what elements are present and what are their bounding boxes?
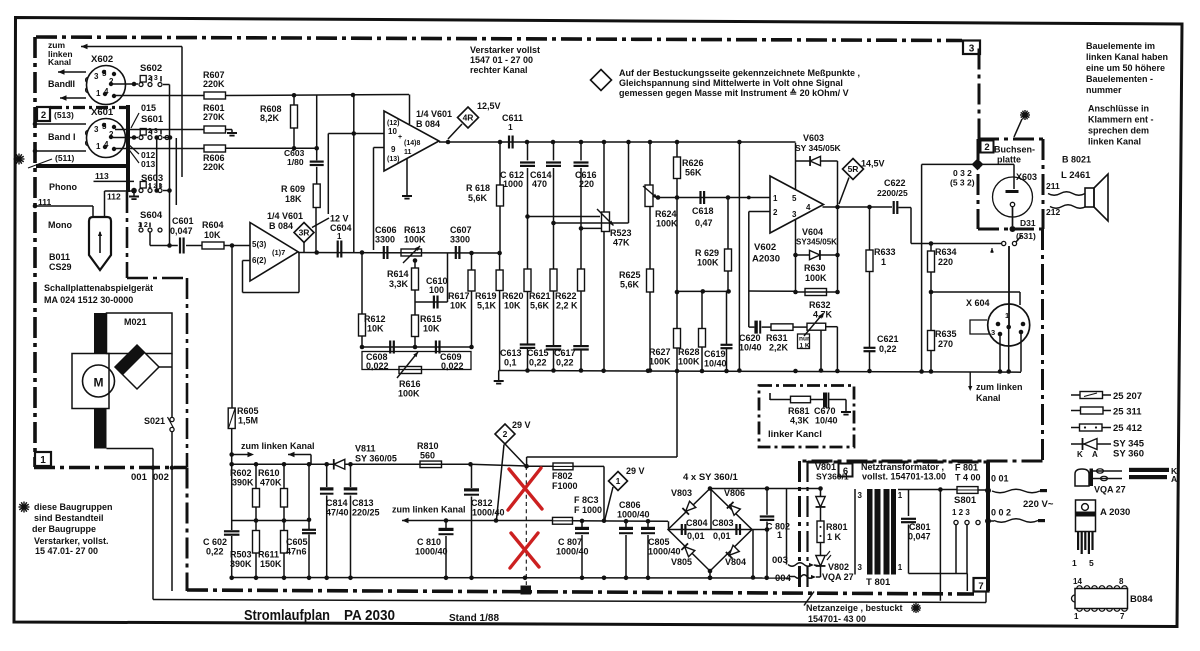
- svg-text:8: 8: [1119, 577, 1124, 586]
- svg-text:5(3): 5(3): [252, 240, 267, 249]
- svg-text:10: 10: [388, 127, 397, 136]
- svg-text:29 V: 29 V: [512, 420, 531, 430]
- svg-text:S601: S601: [141, 114, 164, 125]
- svg-text:0,01: 0,01: [713, 531, 731, 541]
- svg-text:C 810: C 810: [417, 537, 441, 547]
- svg-text:0,047: 0,047: [908, 532, 931, 542]
- svg-text:R627: R627: [649, 347, 671, 357]
- svg-text:6(2): 6(2): [252, 256, 267, 265]
- svg-text:220K: 220K: [203, 79, 225, 89]
- svg-text:1: 1: [508, 122, 513, 132]
- svg-text:R628: R628: [678, 347, 700, 357]
- svg-text:C801: C801: [909, 522, 931, 532]
- svg-text:004: 004: [775, 573, 792, 584]
- svg-text:R523: R523: [610, 228, 632, 238]
- svg-text:5,6K: 5,6K: [620, 280, 640, 290]
- svg-text:4: 4: [104, 140, 109, 149]
- svg-text:R621: R621: [529, 291, 551, 301]
- svg-text:154701- 43 00: 154701- 43 00: [808, 614, 866, 624]
- svg-text:1/4 V601: 1/4 V601: [416, 109, 452, 119]
- svg-text:220: 220: [938, 257, 953, 267]
- svg-text:C 602: C 602: [203, 537, 227, 547]
- svg-text:0,022: 0,022: [366, 361, 389, 371]
- svg-text:Band: Band: [48, 79, 71, 89]
- svg-text:X603: X603: [1016, 172, 1037, 182]
- svg-text:V811: V811: [355, 444, 376, 454]
- svg-text:2200/25: 2200/25: [877, 188, 908, 198]
- svg-text:3300: 3300: [450, 235, 470, 245]
- svg-text:8,2K: 8,2K: [260, 113, 280, 123]
- svg-text:T 801: T 801: [866, 577, 891, 588]
- svg-text:Netztransformator ,: Netztransformator ,: [861, 462, 944, 472]
- svg-text:3: 3: [858, 563, 863, 572]
- svg-text:Stromlaufplan: Stromlaufplan: [244, 607, 330, 624]
- svg-text:C619: C619: [704, 349, 726, 359]
- svg-text:nur: nur: [799, 336, 810, 343]
- svg-text:470K: 470K: [260, 478, 282, 488]
- svg-text:47K: 47K: [613, 238, 630, 248]
- svg-text:R604: R604: [202, 220, 224, 230]
- svg-text:R503: R503: [230, 550, 252, 560]
- svg-text:R613: R613: [404, 225, 426, 235]
- svg-text:10K: 10K: [504, 301, 521, 311]
- svg-text:R626: R626: [682, 158, 704, 168]
- svg-text:56K: 56K: [685, 168, 702, 178]
- svg-text:eine um 50 höhere: eine um 50 höhere: [1086, 63, 1165, 73]
- svg-text:5,6K: 5,6K: [468, 193, 488, 203]
- svg-text:C617: C617: [554, 348, 576, 358]
- svg-text:0,01: 0,01: [687, 531, 705, 541]
- svg-text:R602: R602: [230, 468, 252, 478]
- svg-text:(5 3 2): (5 3 2): [950, 178, 975, 188]
- svg-text:gemessen gegen Masse mit In: gemessen gegen Masse mit Instrument ≙ 20…: [619, 88, 849, 98]
- svg-text:S021: S021: [144, 416, 165, 426]
- svg-text:R633: R633: [874, 247, 896, 257]
- svg-text:390K: 390K: [232, 478, 254, 488]
- svg-text:47/40: 47/40: [326, 508, 349, 518]
- svg-text:SY 360/05: SY 360/05: [355, 454, 397, 464]
- svg-text:100K: 100K: [805, 273, 827, 283]
- svg-text:1: 1: [898, 491, 903, 500]
- svg-text:5R: 5R: [848, 164, 859, 174]
- svg-text:0 0 2: 0 0 2: [991, 508, 1011, 518]
- svg-text:1 2 3: 1 2 3: [952, 508, 970, 517]
- svg-text:R619: R619: [475, 291, 497, 301]
- svg-text:5: 5: [102, 69, 107, 78]
- svg-text:R630: R630: [804, 263, 826, 273]
- svg-text:003: 003: [772, 555, 788, 566]
- svg-text:100: 100: [429, 285, 444, 295]
- svg-text:47n6: 47n6: [286, 547, 307, 557]
- svg-text:SY360/1: SY360/1: [816, 472, 849, 482]
- svg-text:14: 14: [1073, 577, 1082, 586]
- svg-text:5,1K: 5,1K: [477, 301, 497, 311]
- svg-text:1000/40: 1000/40: [648, 547, 681, 557]
- svg-text:C622: C622: [884, 178, 906, 188]
- svg-text:0,22: 0,22: [206, 547, 224, 557]
- svg-text:+: +: [398, 134, 402, 141]
- svg-text:3: 3: [858, 491, 863, 500]
- svg-text:B 8021: B 8021: [1062, 155, 1091, 165]
- svg-text:zum linken Kanal: zum linken Kanal: [392, 505, 466, 515]
- svg-text:Bauelementen -: Bauelementen -: [1086, 74, 1153, 84]
- svg-text:B011: B011: [49, 252, 70, 262]
- svg-text:4 x SY 360/1: 4 x SY 360/1: [683, 472, 738, 483]
- svg-text:D31: D31: [1020, 218, 1036, 228]
- svg-text:001: 001: [131, 472, 148, 483]
- svg-text:zum linken: zum linken: [976, 382, 1023, 392]
- svg-text:100K: 100K: [656, 219, 678, 229]
- svg-text:3: 3: [792, 210, 797, 219]
- svg-text:M021: M021: [124, 317, 147, 327]
- svg-text:Verstarker, vollst.: Verstarker, vollst.: [34, 536, 109, 546]
- svg-text:Gleichspannung sind Mittelwe: Gleichspannung sind Mittelwerte in Volt …: [619, 78, 843, 88]
- svg-text:Band I: Band I: [48, 132, 76, 142]
- svg-text:C803: C803: [712, 518, 734, 528]
- svg-text:470: 470: [532, 179, 547, 189]
- svg-text:150K: 150K: [260, 559, 282, 569]
- svg-text:1547 01 - 27 00: 1547 01 - 27 00: [470, 55, 533, 65]
- svg-text:A 2030: A 2030: [1100, 507, 1130, 518]
- svg-text:sprechen dem: sprechen dem: [1088, 126, 1149, 136]
- svg-text:2: 2: [984, 142, 989, 153]
- svg-text:0,047: 0,047: [170, 226, 193, 236]
- svg-text:2,2 K: 2,2 K: [556, 301, 578, 311]
- svg-text:linken Kanal haben: linken Kanal haben: [1086, 52, 1168, 62]
- svg-text:C812: C812: [471, 498, 493, 508]
- svg-text:R681: R681: [788, 406, 810, 416]
- svg-text:(14)8: (14)8: [404, 140, 420, 147]
- svg-text:3300: 3300: [375, 235, 395, 245]
- svg-text:C620: C620: [739, 333, 761, 343]
- svg-text:3: 3: [991, 328, 995, 337]
- svg-text:V602: V602: [754, 242, 776, 253]
- svg-text:100K: 100K: [649, 357, 671, 367]
- svg-text:Klammern ent -: Klammern ent -: [1088, 115, 1154, 125]
- svg-text:platte: platte: [997, 155, 1021, 165]
- svg-text:A2030: A2030: [752, 254, 780, 265]
- svg-text:B 084: B 084: [269, 221, 293, 231]
- svg-text:3R: 3R: [299, 228, 310, 238]
- svg-text:R610: R610: [258, 468, 280, 478]
- svg-text:Phono: Phono: [49, 182, 77, 192]
- svg-text:Kanal: Kanal: [48, 57, 71, 67]
- svg-text:220K: 220K: [203, 162, 225, 172]
- svg-text:4: 4: [104, 87, 109, 96]
- svg-text:0,22: 0,22: [556, 358, 574, 368]
- svg-text:C 807: C 807: [558, 537, 582, 547]
- svg-text:V802: V802: [828, 562, 849, 572]
- svg-text:100K: 100K: [398, 389, 420, 399]
- svg-text:V804: V804: [725, 557, 746, 567]
- svg-text:11: 11: [404, 149, 412, 156]
- svg-text:1: 1: [773, 194, 778, 203]
- svg-text:113: 113: [95, 171, 109, 181]
- svg-text:linker Kancl: linker Kancl: [768, 429, 822, 440]
- svg-text:211: 211: [1046, 181, 1060, 191]
- svg-text:(13): (13): [387, 156, 399, 163]
- svg-text:1: 1: [1072, 558, 1077, 568]
- svg-text:Anschlüsse in: Anschlüsse in: [1088, 104, 1149, 114]
- svg-text:1: 1: [40, 455, 46, 466]
- svg-text:F 1000: F 1000: [574, 505, 602, 515]
- svg-text:1000/40: 1000/40: [415, 547, 448, 557]
- svg-text:Netzanzeige , bestuckt: Netzanzeige , bestuckt: [806, 603, 903, 613]
- svg-text:F 8C3: F 8C3: [574, 495, 599, 505]
- svg-text:S801: S801: [954, 495, 977, 506]
- svg-text:C607: C607: [450, 225, 472, 235]
- svg-text:0,1: 0,1: [504, 358, 517, 368]
- svg-text:10K: 10K: [204, 230, 221, 240]
- svg-text:112: 112: [107, 192, 121, 202]
- svg-text:1000: 1000: [503, 179, 523, 189]
- svg-text:1: 1: [616, 476, 621, 486]
- svg-text:2: 2: [503, 429, 508, 439]
- svg-text:3: 3: [94, 72, 99, 81]
- svg-text:A: A: [1092, 450, 1098, 459]
- svg-text:Kanal: Kanal: [976, 393, 1001, 403]
- svg-text:F802: F802: [552, 471, 573, 481]
- svg-text:270: 270: [938, 339, 953, 349]
- svg-text:R622: R622: [555, 291, 577, 301]
- svg-text:12,5V: 12,5V: [477, 101, 501, 111]
- svg-text:V806: V806: [724, 488, 745, 498]
- svg-text:3: 3: [94, 125, 99, 134]
- svg-text:der Baugruppe: der Baugruppe: [32, 524, 96, 534]
- svg-text:L 2461: L 2461: [1061, 170, 1091, 181]
- svg-text:(511): (511): [55, 153, 75, 163]
- svg-text:rechter Kanal: rechter Kanal: [470, 65, 528, 75]
- svg-text:7: 7: [1120, 612, 1125, 621]
- svg-text:zum linken Kanal: zum linken Kanal: [241, 441, 315, 451]
- svg-text:5: 5: [792, 194, 797, 203]
- svg-text:1000/40: 1000/40: [472, 508, 505, 518]
- svg-text:2 3: 2 3: [148, 75, 158, 82]
- svg-text:Buchsen-: Buchsen-: [994, 145, 1035, 155]
- svg-text:R615: R615: [420, 314, 442, 324]
- svg-text:10K: 10K: [450, 301, 467, 311]
- svg-text:II: II: [70, 79, 75, 89]
- svg-text:10/40: 10/40: [739, 343, 762, 353]
- svg-text:100K: 100K: [678, 357, 700, 367]
- svg-text:C618: C618: [692, 206, 714, 216]
- svg-text:R 618: R 618: [466, 183, 490, 193]
- svg-text:1 K: 1 K: [800, 343, 810, 350]
- svg-text:S604: S604: [140, 210, 163, 221]
- svg-text:560: 560: [420, 451, 435, 461]
- svg-text:0,022: 0,022: [441, 361, 464, 371]
- svg-text:C806: C806: [619, 500, 641, 510]
- svg-text:C621: C621: [877, 334, 899, 344]
- svg-text:A: A: [1171, 474, 1177, 484]
- svg-text:R631: R631: [766, 333, 788, 343]
- svg-text:5: 5: [102, 122, 107, 131]
- svg-text:C805: C805: [648, 537, 670, 547]
- svg-text:VQA 27: VQA 27: [1094, 485, 1126, 495]
- svg-text:Auf der Bestuckungsseite geke: Auf der Bestuckungsseite gekennzeichnete…: [619, 68, 860, 78]
- svg-text:0,47: 0,47: [695, 218, 713, 228]
- svg-text:R616: R616: [399, 379, 421, 389]
- svg-text:S602: S602: [140, 63, 162, 74]
- svg-text:220 V~: 220 V~: [1023, 499, 1054, 510]
- svg-text:1: 1: [337, 232, 342, 241]
- svg-text:vollst. 154701-13.00: vollst. 154701-13.00: [862, 472, 946, 482]
- svg-text:B 084: B 084: [416, 119, 440, 129]
- svg-text:R605: R605: [237, 406, 259, 416]
- svg-text:3: 3: [969, 44, 975, 55]
- svg-text:X602: X602: [91, 54, 113, 65]
- svg-text:10K: 10K: [367, 324, 384, 334]
- svg-text:0 3 2: 0 3 2: [953, 168, 972, 178]
- svg-text:1000/40: 1000/40: [556, 547, 589, 557]
- svg-text:sind Bestandteil: sind Bestandteil: [34, 513, 104, 523]
- svg-text:linken Kanal: linken Kanal: [1088, 137, 1141, 147]
- svg-text:220/25: 220/25: [352, 508, 380, 518]
- svg-text:PA 2030: PA 2030: [344, 607, 395, 624]
- svg-text:R 629: R 629: [695, 248, 719, 258]
- svg-text:4: 4: [806, 203, 811, 212]
- svg-text:diese Baugruppen: diese Baugruppen: [34, 502, 113, 512]
- svg-text:10K: 10K: [423, 324, 440, 334]
- svg-text:X601: X601: [91, 107, 114, 118]
- svg-text:C804: C804: [686, 518, 708, 528]
- svg-text:25 311: 25 311: [1113, 407, 1142, 418]
- svg-text:1: 1: [96, 142, 101, 151]
- svg-text:R 609: R 609: [281, 184, 305, 194]
- svg-text:4R: 4R: [463, 113, 474, 123]
- svg-text:5: 5: [1089, 558, 1094, 568]
- svg-text:2,2K: 2,2K: [769, 343, 789, 353]
- svg-text:Verstarker vollst: Verstarker vollst: [470, 45, 540, 55]
- svg-text:C605: C605: [286, 537, 308, 547]
- svg-text:1 K: 1 K: [827, 532, 842, 542]
- svg-text:C613: C613: [500, 348, 522, 358]
- svg-text:0 01: 0 01: [991, 474, 1009, 484]
- svg-text:18K: 18K: [285, 194, 302, 204]
- svg-text:1: 1: [898, 563, 903, 572]
- svg-text:R632: R632: [809, 300, 831, 310]
- svg-text:3,3K: 3,3K: [389, 279, 409, 289]
- svg-text:(1)7: (1)7: [272, 248, 285, 257]
- svg-text:25 207: 25 207: [1113, 391, 1142, 402]
- svg-text:29 V: 29 V: [626, 466, 645, 476]
- svg-text:R625: R625: [619, 270, 641, 280]
- svg-text:270K: 270K: [203, 112, 225, 122]
- svg-text:2: 2: [773, 208, 778, 217]
- svg-text:B084: B084: [1130, 594, 1153, 605]
- svg-text:R617: R617: [448, 291, 470, 301]
- svg-text:C615: C615: [527, 348, 549, 358]
- svg-text:V604: V604: [802, 227, 823, 237]
- svg-text:MA 024 1512 30-0000: MA 024 1512 30-0000: [44, 295, 133, 305]
- svg-text:1: 1: [881, 257, 886, 267]
- svg-text:R611: R611: [258, 550, 279, 560]
- svg-text:T 4 00: T 4 00: [955, 473, 981, 483]
- svg-text:X 604: X 604: [966, 298, 990, 308]
- svg-text:C606: C606: [375, 225, 397, 235]
- svg-text:SY 345/05K: SY 345/05K: [795, 143, 842, 153]
- svg-text:Schallplattenabspielgerät: Schallplattenabspielgerät: [44, 283, 153, 293]
- svg-text:nummer: nummer: [1086, 85, 1122, 95]
- svg-text:12 V: 12 V: [330, 214, 349, 224]
- svg-text:F 801: F 801: [955, 463, 978, 473]
- svg-text:R614: R614: [387, 269, 409, 279]
- svg-text:R801: R801: [826, 522, 848, 532]
- svg-text:1/80: 1/80: [287, 157, 304, 167]
- svg-text:0,22: 0,22: [879, 344, 897, 354]
- svg-text:R624: R624: [655, 209, 677, 219]
- svg-text:1000/40: 1000/40: [617, 510, 650, 520]
- svg-text:V801: V801: [815, 462, 836, 472]
- svg-text:SY345/05K: SY345/05K: [796, 238, 837, 247]
- svg-text:M: M: [94, 376, 104, 390]
- svg-text:7: 7: [978, 581, 983, 592]
- svg-text:(12): (12): [387, 120, 399, 127]
- svg-text:10/40: 10/40: [815, 416, 838, 426]
- svg-text:1: 1: [777, 530, 782, 540]
- svg-text:V603: V603: [803, 133, 824, 143]
- svg-text:002: 002: [153, 472, 169, 483]
- svg-text:013: 013: [141, 159, 155, 169]
- svg-text:10/40: 10/40: [704, 359, 727, 369]
- svg-text:14,5V: 14,5V: [861, 159, 885, 169]
- svg-text:5,6K: 5,6K: [530, 301, 550, 311]
- svg-text:Stand 1/88: Stand 1/88: [449, 613, 499, 624]
- svg-text:V803: V803: [671, 488, 692, 498]
- svg-text:100K: 100K: [697, 258, 719, 268]
- svg-text:1/4 V601: 1/4 V601: [267, 211, 303, 221]
- svg-text:R810: R810: [417, 441, 439, 451]
- svg-text:15 47.01- 27 00: 15 47.01- 27 00: [35, 546, 98, 556]
- svg-text:(513): (513): [54, 110, 74, 120]
- svg-text:390K: 390K: [230, 559, 252, 569]
- svg-text:R634: R634: [935, 247, 957, 257]
- svg-text:0,22: 0,22: [529, 358, 547, 368]
- svg-text:C670: C670: [814, 406, 836, 416]
- svg-text:1: 1: [96, 89, 101, 98]
- svg-text:C813: C813: [352, 498, 374, 508]
- svg-text:Mono: Mono: [48, 220, 72, 230]
- svg-text:C814: C814: [326, 498, 348, 508]
- svg-text:2: 2: [41, 110, 46, 121]
- svg-text:100K: 100K: [404, 235, 426, 245]
- svg-text:K: K: [1077, 450, 1083, 459]
- svg-text:R620: R620: [502, 291, 524, 301]
- svg-text:SY 360: SY 360: [1113, 449, 1144, 460]
- svg-text:25 412: 25 412: [1113, 423, 1142, 434]
- svg-text:1: 1: [1005, 311, 1009, 320]
- svg-text:015: 015: [141, 103, 156, 113]
- svg-text:1: 1: [1074, 612, 1079, 621]
- svg-text:Bauelemente im: Bauelemente im: [1086, 41, 1155, 51]
- svg-text:VQA 27: VQA 27: [822, 572, 854, 582]
- svg-text:9: 9: [391, 145, 396, 154]
- svg-text:4,3K: 4,3K: [790, 416, 810, 426]
- svg-text:CS29: CS29: [49, 262, 72, 272]
- svg-text:R635: R635: [935, 329, 957, 339]
- svg-text:F1000: F1000: [552, 481, 578, 491]
- svg-text:1,5M: 1,5M: [238, 416, 258, 426]
- svg-text:R612: R612: [364, 314, 386, 324]
- svg-text:C601: C601: [172, 216, 194, 226]
- svg-text:V805: V805: [671, 557, 692, 567]
